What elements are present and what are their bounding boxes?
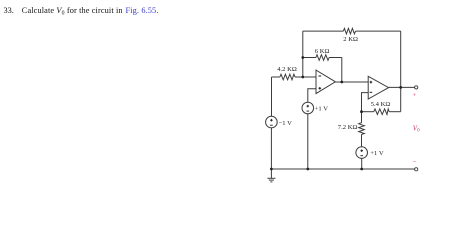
resistor R 4.2K zigzag — [280, 74, 295, 80]
svg-text:2 KΩ: 2 KΩ — [343, 36, 358, 43]
wire: 6K branch horizontal — [303, 57, 342, 59]
svg-text:Fig. 6.55.: Fig. 6.55. — [126, 6, 159, 15]
resistor R 2K zigzag — [343, 28, 355, 34]
node dot: opamp1 minus node at 6K — [301, 56, 304, 59]
op-amp U2 — [368, 76, 388, 99]
wire: below opamp1 +1V source column — [307, 114, 309, 169]
svg-text:33.: 33. — [4, 6, 14, 15]
wire: 7.2K column above — [361, 112, 363, 123]
wire: bottom rail — [271, 168, 414, 170]
node dot: opamp1 output junction — [340, 81, 343, 84]
node dot: opamp2 minus node at 5.4K — [360, 110, 363, 113]
wire: below -1V to rail — [270, 128, 272, 169]
svg-text:+: + — [412, 92, 416, 99]
svg-text:5.4 KΩ: 5.4 KΩ — [371, 101, 391, 108]
wire: below right source to rail — [361, 158, 363, 169]
svg-text:7.2 KΩ: 7.2 KΩ — [338, 124, 358, 131]
node dot: rail at right source — [360, 168, 363, 171]
wire: right column x=400.7 — [400, 31, 402, 112]
wire: 5.4K feedback horizontal — [362, 111, 401, 113]
svg-text:4.2 KΩ: 4.2 KΩ — [277, 66, 297, 73]
wire: opamp1 output to opamp2 plus input — [335, 81, 368, 83]
wire: left node column x=302.8 — [302, 31, 304, 77]
source V -1V — [266, 116, 278, 128]
wire: 6K right drop to opamp1 output — [341, 58, 343, 83]
wire: top feedback horizontal — [303, 30, 401, 32]
resistor R 5.4K zigzag — [374, 109, 389, 115]
resistor R 6K zigzag — [316, 55, 329, 61]
svg-text:−: − — [413, 159, 417, 166]
wire: opamp2 output — [389, 86, 415, 88]
node dot: rail at middle source — [306, 168, 309, 171]
node dot: output node right column — [399, 86, 402, 89]
source V +1V (middle) — [302, 102, 314, 114]
svg-text:+1 V: +1 V — [370, 150, 384, 157]
source V +1V (right) — [356, 147, 368, 159]
terminal: output plus — [415, 86, 418, 89]
terminal: output minus — [415, 168, 418, 171]
svg-text:+1 V: +1 V — [315, 106, 329, 113]
wire: opamp1 plus input stub and drop — [308, 89, 316, 102]
node dot: rail at ground — [270, 168, 273, 171]
ground — [267, 169, 275, 182]
wire: left column down from 4.2K — [271, 77, 273, 116]
wire: below 7.2K to source — [361, 135, 363, 147]
wire: opamp2 minus input stub and drop — [362, 93, 369, 112]
op-amp U1 — [316, 70, 335, 94]
problem statement text — [4, 6, 159, 17]
resistor R 7.2K vertical zigzag — [359, 123, 365, 135]
svg-text:6 KΩ: 6 KΩ — [315, 48, 330, 55]
wire: opamp1 minus input stub — [303, 76, 316, 78]
svg-text:−1 V: −1 V — [279, 120, 293, 127]
node dot: opamp1 minus input — [301, 76, 304, 79]
wire: 4.2K input horizontal — [272, 76, 303, 78]
svg-text:Calculate V0 for the circuit i: Calculate V0 for the circuit in — [22, 6, 124, 17]
